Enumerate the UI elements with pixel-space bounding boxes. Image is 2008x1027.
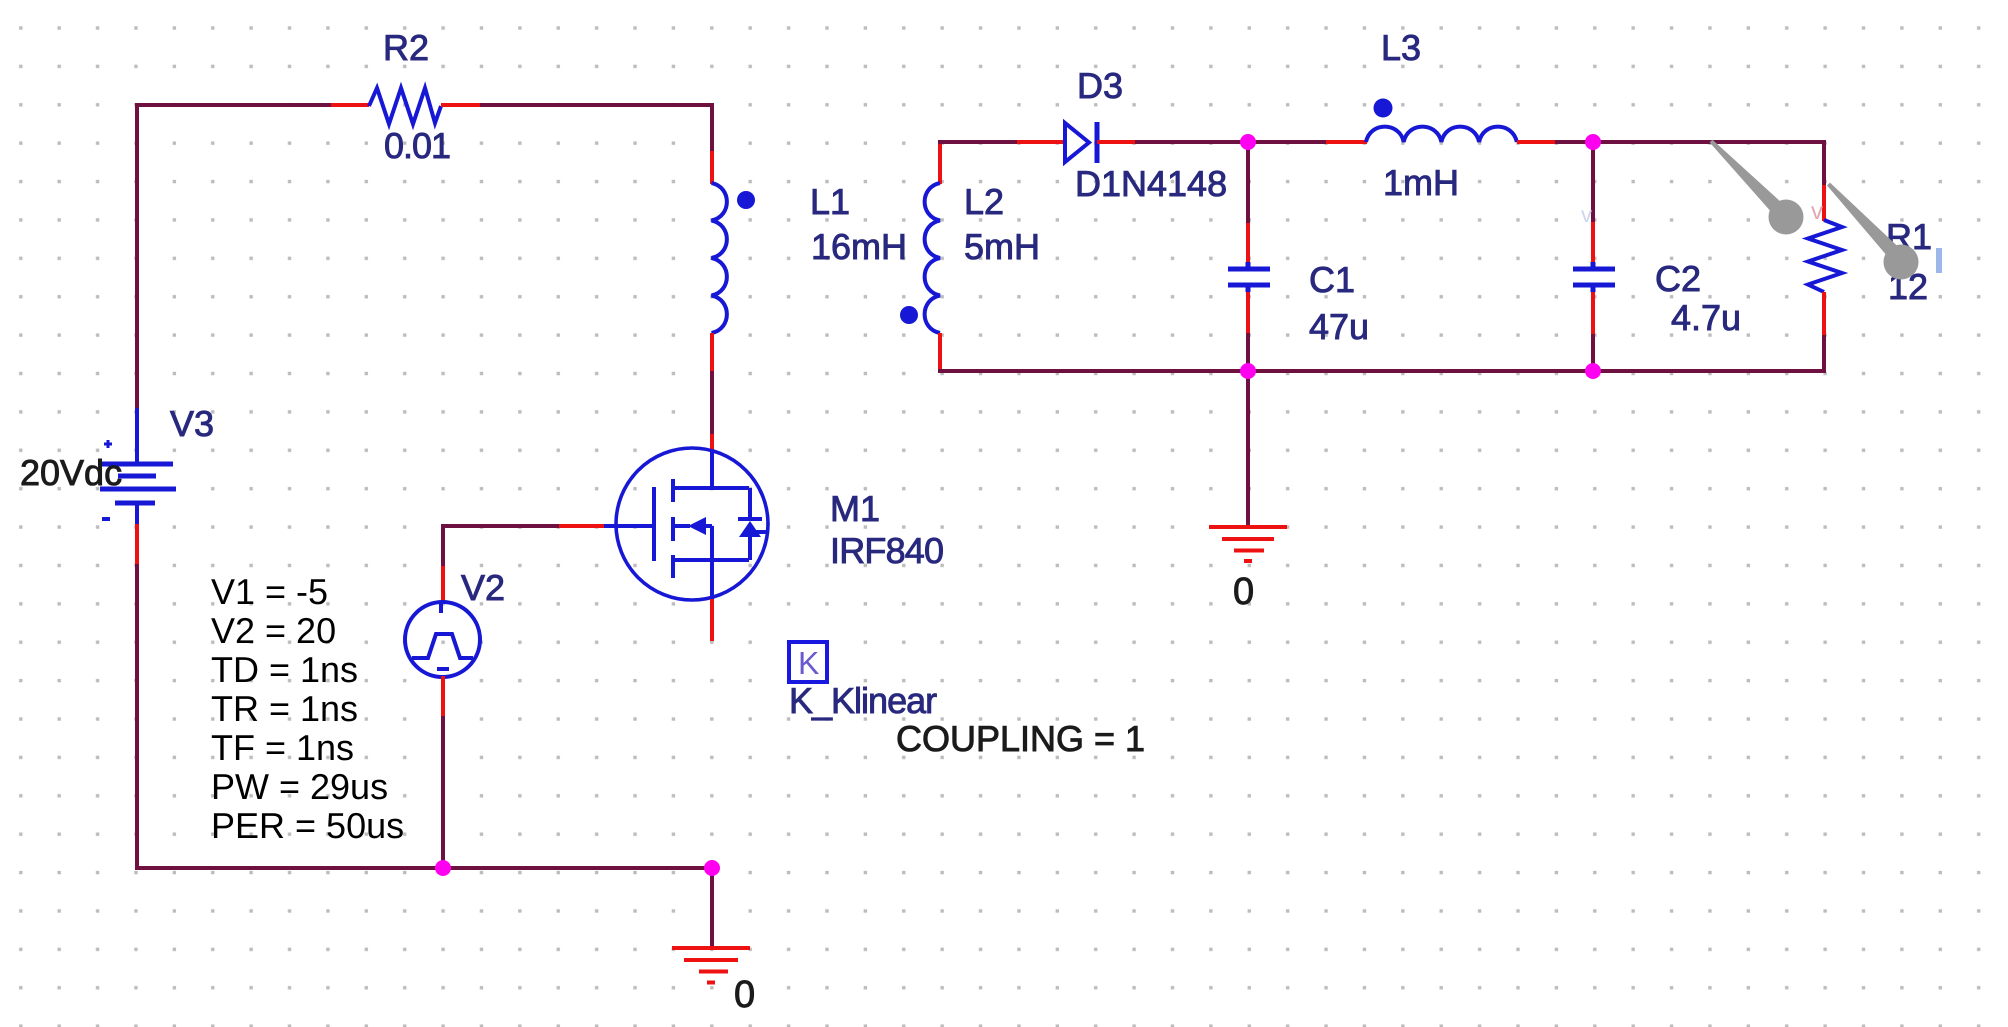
wire bottom output rail bbox=[938, 369, 1826, 373]
svg-text:IRF840: IRF840 bbox=[830, 530, 943, 571]
wire L2 bottom corner bbox=[938, 369, 942, 373]
wire from V3 top up to R2 row (left vertical) bbox=[135, 105, 139, 410]
wire C2 bottom stem bbox=[1591, 334, 1595, 373]
svg-text:K: K bbox=[798, 645, 819, 681]
svg-text:V2: V2 bbox=[461, 567, 505, 608]
svg-text:R2: R2 bbox=[383, 27, 429, 68]
inductor L3 right pin bbox=[1517, 140, 1555, 144]
svg-text:V3: V3 bbox=[170, 403, 214, 444]
V2 parameter text block bbox=[211, 571, 404, 846]
junction node at M1 source bbox=[704, 860, 720, 876]
wire D3 to L3 bbox=[1135, 140, 1326, 144]
inductor L1 bottom pin bbox=[710, 333, 714, 372]
resistor R1 bbox=[1808, 220, 1842, 292]
junction node C1 bottom bbox=[1240, 363, 1256, 379]
svg-text:L2: L2 bbox=[964, 181, 1004, 222]
wire L2 top to D3 bbox=[938, 140, 1017, 144]
svg-text:0.01: 0.01 bbox=[384, 125, 450, 166]
faint current marker I at R1 bbox=[1936, 248, 1942, 273]
resistor R1 top pin bbox=[1822, 185, 1826, 221]
svg-text:K_Klinear: K_Klinear bbox=[789, 680, 937, 721]
svg-text:PW = 29us: PW = 29us bbox=[211, 766, 388, 807]
capacitor C1 bbox=[1228, 262, 1270, 292]
source V2 top pin bbox=[441, 566, 445, 603]
svg-text:COUPLING = 1: COUPLING = 1 bbox=[896, 718, 1145, 759]
phase dot of L3 bbox=[1374, 99, 1393, 118]
diode D3 right pin bbox=[1097, 140, 1135, 144]
wire C2 top stem bbox=[1591, 142, 1595, 222]
junction node L3/C2 bbox=[1585, 134, 1601, 150]
capacitor C2 bottom pin bbox=[1591, 292, 1595, 334]
svg-text:PER = 50us: PER = 50us bbox=[211, 805, 404, 846]
diode D3 left pin bbox=[1017, 140, 1063, 144]
wire R1 branch top corner bbox=[1822, 140, 1826, 187]
ground 0 below C1 bbox=[1209, 527, 1287, 561]
wire M1 source down to ground bbox=[710, 868, 714, 947]
capacitor C1 top pin bbox=[1246, 223, 1250, 264]
svg-text:47u: 47u bbox=[1309, 306, 1369, 347]
inductor L1 bbox=[712, 183, 727, 333]
svg-text:V2 = 20: V2 = 20 bbox=[211, 610, 336, 651]
source V2 bottom pin bbox=[441, 676, 445, 716]
inductor L1 top pin bbox=[710, 151, 714, 184]
capacitor C1 bottom pin bbox=[1246, 292, 1250, 333]
wire C1 top stem bbox=[1246, 142, 1250, 223]
battery V3 bottom pin bbox=[135, 524, 139, 564]
wire V2 top corner bbox=[441, 524, 445, 566]
junction node C2 bottom bbox=[1585, 363, 1601, 379]
wire top rail left of R2 bbox=[135, 103, 331, 107]
phase dot of L2 bbox=[900, 306, 918, 324]
svg-text:TD = 1ns: TD = 1ns bbox=[211, 649, 358, 690]
svg-text:L3: L3 bbox=[1381, 27, 1421, 68]
svg-text:0: 0 bbox=[1233, 571, 1254, 613]
wire bottom rail bbox=[135, 866, 714, 870]
svg-text:4.7u: 4.7u bbox=[1671, 297, 1741, 338]
wire from top rail down to L1 bbox=[710, 103, 714, 151]
inductor L2 bbox=[925, 183, 940, 333]
wire V2 bottom to ground rail bbox=[441, 716, 445, 870]
resistor R2 bbox=[369, 88, 441, 124]
svg-text:v: v bbox=[1581, 202, 1592, 227]
junction node at V2 bottom bbox=[435, 860, 451, 876]
svg-text:M1: M1 bbox=[830, 488, 880, 529]
inductor L3 left pin bbox=[1326, 140, 1367, 144]
transistor M1 drain pin bbox=[710, 434, 714, 455]
voltage probe marker 2 bbox=[1827, 183, 1919, 280]
svg-text:1mH: 1mH bbox=[1383, 162, 1459, 203]
wire gate to V2 bbox=[441, 524, 559, 528]
inductor L2 top pin bbox=[938, 140, 942, 184]
svg-text:D3: D3 bbox=[1077, 65, 1123, 106]
wire C1 junction down to ground bbox=[1246, 371, 1250, 525]
capacitor C2 bbox=[1573, 262, 1615, 292]
inductor L2 bottom pin bbox=[938, 333, 942, 373]
resistor R2 right pin bbox=[441, 103, 480, 107]
svg-text:TR = 1ns: TR = 1ns bbox=[211, 688, 358, 729]
wire top rail right of R2 bbox=[480, 103, 714, 107]
wire L3 to R1 branch bbox=[1555, 140, 1826, 144]
svg-text:C2: C2 bbox=[1655, 258, 1701, 299]
battery V3 bbox=[100, 408, 176, 524]
transistor M1 source pin bbox=[710, 599, 714, 641]
svg-text:16mH: 16mH bbox=[811, 226, 907, 267]
junction node D3/C1 bbox=[1240, 134, 1256, 150]
coupling symbol K box bbox=[789, 642, 827, 682]
pulse source V2 bbox=[405, 601, 480, 677]
transistor M1 bbox=[603, 448, 768, 600]
wire C1 bottom stem bbox=[1246, 333, 1250, 373]
svg-text:D1N4148: D1N4148 bbox=[1075, 163, 1227, 204]
diode D3 bbox=[1065, 122, 1097, 163]
svg-text:V1 = -5: V1 = -5 bbox=[211, 571, 328, 612]
resistor R1 bottom pin bbox=[1822, 292, 1826, 335]
svg-text:20Vdc: 20Vdc bbox=[20, 452, 122, 493]
resistor R2 left pin bbox=[331, 103, 369, 107]
wire from L1 down to M1 drain bbox=[710, 371, 714, 434]
svg-text:v: v bbox=[1811, 198, 1823, 225]
svg-text:L1: L1 bbox=[810, 181, 850, 222]
wire R1 bottom corner bbox=[1822, 335, 1826, 373]
transistor M1 gate pin bbox=[559, 524, 604, 528]
svg-text:0: 0 bbox=[734, 974, 755, 1016]
inductor L3 bbox=[1366, 127, 1517, 142]
phase dot of L1 bbox=[737, 191, 755, 209]
voltage probe marker 1 bbox=[1710, 140, 1804, 235]
svg-text:5mH: 5mH bbox=[964, 226, 1040, 267]
ground 0 below M1 bbox=[672, 948, 750, 983]
capacitor C2 top pin bbox=[1591, 222, 1595, 264]
svg-text:TF = 1ns: TF = 1ns bbox=[211, 727, 354, 768]
wire V3 bottom to ground rail bbox=[135, 564, 139, 870]
svg-text:C1: C1 bbox=[1309, 259, 1355, 300]
